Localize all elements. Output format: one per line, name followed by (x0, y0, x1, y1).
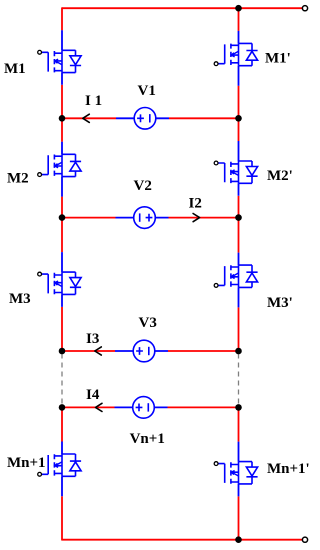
svg-text:I4: I4 (86, 387, 100, 403)
svg-text:V2: V2 (134, 178, 152, 194)
svg-text:M2: M2 (7, 171, 29, 187)
svg-text:V1: V1 (138, 83, 156, 99)
svg-text:V3: V3 (139, 315, 157, 331)
svg-text:I 1: I 1 (85, 93, 102, 109)
svg-text:M1: M1 (4, 61, 26, 77)
svg-text:M3: M3 (9, 291, 31, 307)
svg-text:I3: I3 (86, 331, 99, 347)
svg-text:M3': M3' (267, 295, 293, 311)
svg-text:M2': M2' (267, 168, 293, 184)
svg-text:M1': M1' (265, 51, 291, 67)
svg-text:Mn+1': Mn+1' (267, 461, 310, 477)
svg-text:Vn+1: Vn+1 (130, 431, 165, 447)
svg-text:I2: I2 (189, 196, 202, 212)
svg-text:Mn+1: Mn+1 (7, 455, 46, 471)
